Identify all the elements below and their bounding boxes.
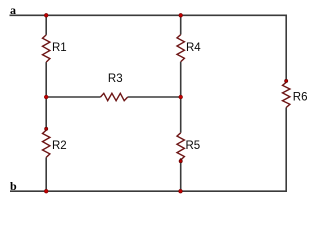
- svg-text:b: b: [10, 179, 17, 193]
- pin dot R2 top: [45, 127, 48, 130]
- svg-text:R2: R2: [52, 140, 67, 152]
- svg-text:R5: R5: [186, 140, 201, 152]
- pin dot R6 top: [285, 79, 288, 82]
- svg-text:R4: R4: [186, 42, 201, 54]
- wire right vertical upper segment: [285, 15, 287, 82]
- wire top rail a: [10, 14, 287, 16]
- junction node a-left: [44, 14, 48, 18]
- svg-text:R3: R3: [108, 73, 123, 85]
- resistor R4: [177, 35, 201, 62]
- svg-text:R1: R1: [52, 42, 67, 54]
- junction node a-mid: [179, 14, 183, 18]
- wire middle horizontal segments: [46, 96, 181, 98]
- junction node b-left: [44, 189, 48, 193]
- junction node b-mid: [179, 189, 183, 193]
- resistor R6: [283, 82, 308, 107]
- junction node mid-left: [44, 95, 48, 99]
- junction node mid-right: [179, 95, 183, 99]
- wire right vertical lower segment: [285, 108, 287, 193]
- wire bottom rail b: [10, 190, 286, 192]
- svg-text:R6: R6: [293, 91, 308, 103]
- pin dot R5 bottom: [179, 160, 182, 163]
- resistor R2: [43, 130, 67, 157]
- resistor R3: [101, 73, 128, 101]
- svg-text:a: a: [10, 3, 16, 17]
- resistor R1: [43, 35, 67, 62]
- resistor R5: [177, 133, 200, 160]
- wire middle vertical segments: [180, 15, 182, 191]
- wire left vertical segments: [45, 15, 47, 191]
